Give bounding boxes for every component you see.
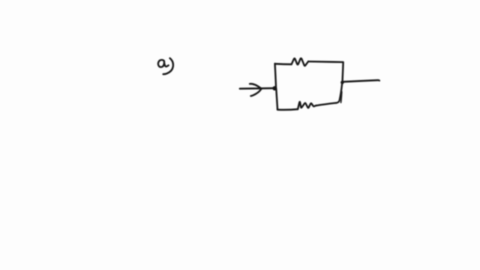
wire bottom right [316,103,336,106]
wire output [343,80,380,82]
wire top left [275,63,292,66]
label a) [158,58,173,74]
wire input [240,87,275,90]
wire right rail upper [341,62,344,82]
node A [273,86,277,90]
junction node [341,81,344,84]
wire right rail retrace [340,92,343,103]
wire right rail lower [336,83,342,103]
wire bottom left [278,108,298,111]
resistor R2 [298,102,316,109]
arrowhead [250,84,262,96]
resistor R1 [292,58,309,66]
wire left rail upper [275,64,276,88]
wire left rail lower [276,89,277,110]
wire top right [308,61,343,64]
